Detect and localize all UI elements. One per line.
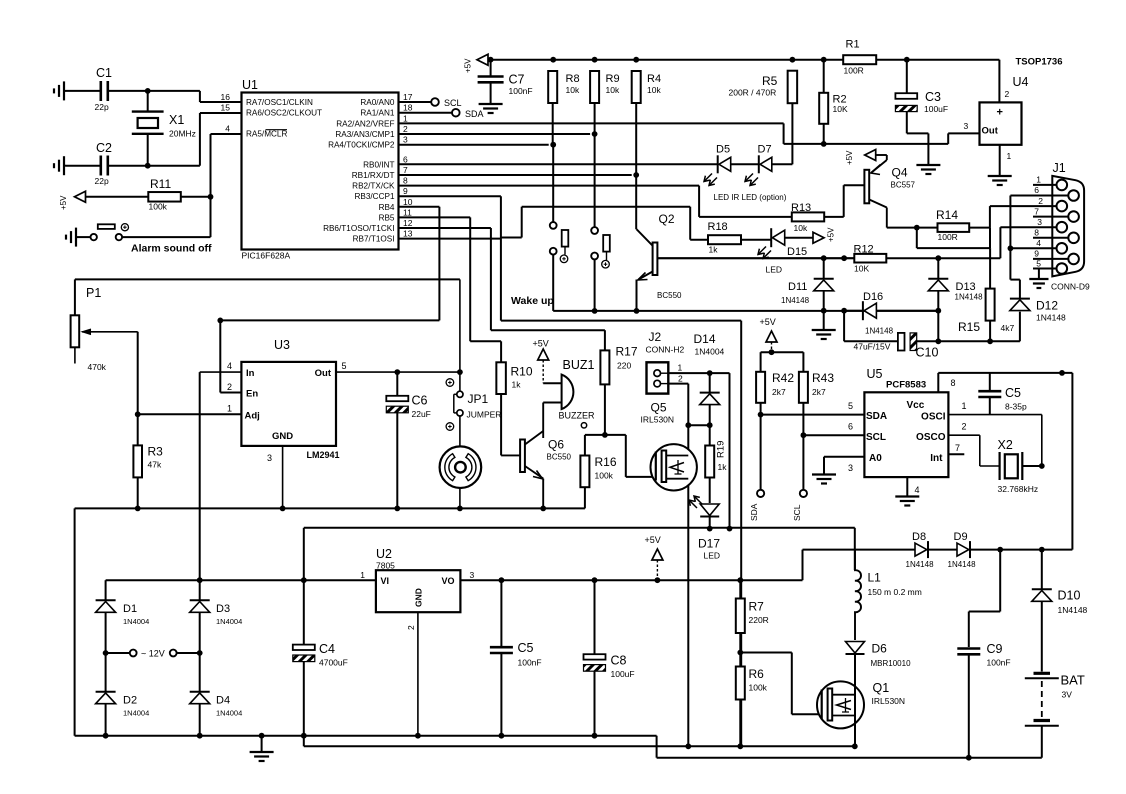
- capacitor C1: [66, 90, 101, 92]
- svg-text:LED IR LED (option): LED IR LED (option): [714, 193, 787, 202]
- svg-text:RB4: RB4: [379, 203, 395, 212]
- svg-text:+5V: +5V: [533, 339, 549, 349]
- svg-text:100nF: 100nF: [509, 86, 533, 96]
- svg-text:BC550: BC550: [547, 453, 572, 462]
- diode D3: [199, 580, 201, 600]
- svg-text:R9: R9: [606, 73, 620, 85]
- transistor Q6 BC550: [501, 454, 520, 456]
- svg-text:5: 5: [848, 401, 853, 411]
- svg-text:17: 17: [403, 92, 413, 102]
- svg-text:RB0/INT: RB0/INT: [363, 160, 394, 169]
- resistor R14: [917, 227, 938, 229]
- wire: [772, 163, 792, 165]
- svg-text:8-35p: 8-35p: [1005, 402, 1027, 412]
- svg-text:D16: D16: [863, 291, 883, 303]
- svg-text:SDA: SDA: [465, 109, 484, 119]
- svg-text:D2: D2: [123, 695, 137, 707]
- ground: [916, 164, 940, 166]
- wire: [550, 142, 556, 148]
- pin 2: [998, 60, 1000, 103]
- svg-text:D11: D11: [788, 281, 807, 293]
- diode D9: [928, 549, 957, 551]
- wire Q4 collector node: [887, 227, 917, 229]
- wire: [208, 194, 214, 200]
- jumper JP1: [459, 279, 461, 390]
- pin 2: [668, 383, 688, 385]
- svg-text:7: 7: [403, 165, 408, 175]
- svg-text:6: 6: [403, 154, 408, 164]
- diode D6: [846, 642, 865, 654]
- diode D14: [709, 373, 711, 393]
- svg-text:D17: D17: [698, 537, 720, 551]
- wire: [729, 373, 731, 528]
- svg-text:GND: GND: [414, 588, 424, 607]
- resistor R1: [843, 55, 876, 64]
- svg-text:9: 9: [1034, 249, 1039, 259]
- wire GND pin3: [282, 446, 284, 509]
- diode D10: [1041, 550, 1043, 590]
- svg-text:OSCI: OSCI: [921, 412, 946, 423]
- capacitor C3: [906, 60, 908, 93]
- svg-text:+: +: [997, 107, 1003, 119]
- svg-text:8: 8: [403, 176, 408, 186]
- svg-text:U3: U3: [274, 338, 290, 352]
- ground: [823, 311, 825, 329]
- svg-text:SDA: SDA: [749, 503, 759, 521]
- resistor R6: [736, 667, 745, 700]
- transistor Q4 BC557: [864, 170, 869, 204]
- svg-text:100nF: 100nF: [987, 658, 1011, 668]
- svg-text:1N4004: 1N4004: [216, 617, 242, 626]
- svg-text:+5V: +5V: [645, 535, 661, 545]
- svg-text:D15: D15: [787, 246, 807, 258]
- wire A0 ground: [824, 456, 864, 458]
- svg-text:SCL: SCL: [866, 432, 886, 443]
- svg-text:D14: D14: [694, 332, 716, 346]
- svg-text:100R: 100R: [938, 232, 958, 242]
- svg-text:3: 3: [964, 121, 969, 131]
- svg-text:4k7: 4k7: [1001, 323, 1015, 333]
- wire base R13: [844, 184, 865, 186]
- wire: [633, 172, 639, 178]
- svg-text:Q2: Q2: [659, 212, 675, 226]
- svg-text:D13: D13: [956, 281, 976, 293]
- svg-text:RB7/T1OSI: RB7/T1OSI: [353, 235, 395, 244]
- diode D2: [105, 653, 107, 692]
- ground: [479, 103, 503, 105]
- svg-text:RB3/CCP1: RB3/CCP1: [354, 192, 394, 201]
- svg-text:BAT: BAT: [1061, 673, 1085, 688]
- svg-text:8: 8: [951, 378, 956, 388]
- svg-text:R11: R11: [150, 177, 171, 191]
- IC U3 LM2941: [241, 362, 336, 446]
- svg-text:R16: R16: [595, 455, 617, 469]
- svg-text:BUZ1: BUZ1: [563, 358, 595, 372]
- resistor R18: [690, 239, 708, 241]
- LED D15: [770, 228, 772, 247]
- pin 8: [1033, 237, 1069, 239]
- MOSFET Q1 IRL530N: [817, 681, 864, 728]
- switch wake-up 2: [594, 134, 596, 227]
- svg-text:BC557: BC557: [891, 181, 916, 190]
- transistor Q2 BC550: [653, 243, 658, 276]
- svg-text:SCL: SCL: [792, 504, 802, 521]
- IC U5 PCF8583: [864, 392, 948, 477]
- resistor R19: [705, 446, 714, 478]
- svg-text:2k7: 2k7: [772, 387, 786, 397]
- wire: [688, 424, 709, 426]
- svg-text:X2: X2: [998, 438, 1013, 452]
- resistor R11: [80, 196, 148, 198]
- wire switch common rail: [553, 310, 938, 312]
- wire RA2 to U4: [399, 122, 784, 124]
- svg-text:D12: D12: [1036, 299, 1058, 313]
- svg-text:D3: D3: [216, 603, 230, 615]
- svg-text:D7: D7: [758, 144, 772, 156]
- svg-text:+5V: +5V: [827, 227, 836, 242]
- wire Adj: [138, 413, 242, 415]
- IC U4 TSOP1736: [980, 102, 1022, 144]
- svg-text:3: 3: [403, 135, 408, 145]
- svg-text:+5V: +5V: [59, 195, 68, 210]
- wire: [990, 340, 1020, 342]
- svg-text:1N4148: 1N4148: [906, 560, 935, 569]
- ground: [895, 495, 919, 497]
- svg-text:X1: X1: [169, 113, 184, 127]
- capacitor C10: [843, 311, 845, 342]
- svg-text:L1: L1: [868, 571, 882, 585]
- svg-text:C8: C8: [611, 654, 627, 668]
- LED D17: [700, 504, 719, 516]
- svg-text:10k: 10k: [794, 223, 808, 233]
- svg-text:16: 16: [221, 92, 231, 102]
- resistor R17: [600, 350, 609, 384]
- svg-text:1N4004: 1N4004: [695, 347, 725, 357]
- svg-text:D6: D6: [872, 642, 888, 656]
- svg-text:Wake up: Wake up: [511, 295, 554, 307]
- svg-text:Adj: Adj: [245, 411, 260, 422]
- svg-text:C10: C10: [916, 346, 939, 360]
- ground: [988, 175, 1012, 177]
- svg-text:3V: 3V: [1062, 690, 1073, 700]
- svg-text:IRL530N: IRL530N: [872, 696, 906, 706]
- wire gate Q1: [740, 652, 792, 654]
- svg-text:Q1: Q1: [873, 681, 890, 695]
- svg-text:1N4004: 1N4004: [123, 709, 149, 718]
- wire R16/R17/Q5 node: [585, 434, 626, 436]
- svg-text:3: 3: [470, 570, 475, 580]
- diode D11: [823, 258, 825, 279]
- svg-text:150 m 0.2 mm: 150 m 0.2 mm: [868, 587, 922, 597]
- svg-text:+5V: +5V: [760, 317, 776, 327]
- resistor R4: [632, 71, 641, 103]
- svg-text:4: 4: [915, 485, 920, 495]
- node SDA: [399, 112, 452, 114]
- speaker: [459, 416, 461, 447]
- svg-text:1k: 1k: [718, 462, 728, 472]
- wire SCL line: [803, 434, 864, 436]
- +5V: [75, 191, 86, 202]
- svg-text:D4: D4: [216, 695, 230, 707]
- svg-text:22p: 22p: [95, 102, 109, 112]
- svg-text:Alarm sound off: Alarm sound off: [131, 243, 212, 255]
- svg-text:200R / 470R: 200R / 470R: [729, 88, 777, 98]
- svg-text:4: 4: [227, 361, 232, 371]
- svg-text:PIC16F628A: PIC16F628A: [242, 251, 291, 261]
- svg-text:10K: 10K: [854, 264, 869, 274]
- svg-text:1: 1: [227, 404, 232, 414]
- wire RB3/RB7 loop: [399, 195, 501, 197]
- svg-text:20MHz: 20MHz: [169, 129, 196, 139]
- svg-text:1: 1: [360, 570, 365, 580]
- svg-text:RA4/T0CKI/CMP2: RA4/T0CKI/CMP2: [328, 141, 395, 150]
- svg-text:R6: R6: [749, 667, 765, 681]
- svg-text:R15: R15: [958, 320, 980, 334]
- svg-text:1N4148: 1N4148: [955, 293, 984, 302]
- svg-text:TSOP1736: TSOP1736: [1016, 57, 1063, 68]
- svg-text:1N4148: 1N4148: [948, 560, 977, 569]
- svg-text:RB1/RX/DT: RB1/RX/DT: [352, 171, 395, 180]
- svg-text:GND: GND: [272, 431, 293, 442]
- svg-text:3: 3: [1037, 217, 1042, 227]
- svg-text:1N4148: 1N4148: [1036, 313, 1066, 323]
- svg-text:Vcc: Vcc: [907, 400, 925, 411]
- svg-text:LED: LED: [766, 265, 783, 275]
- svg-text:R3: R3: [148, 445, 164, 459]
- svg-text:RA1/AN1: RA1/AN1: [360, 109, 395, 118]
- svg-text:D10: D10: [1058, 589, 1081, 603]
- wire: [148, 90, 200, 92]
- svg-text:6: 6: [848, 422, 853, 432]
- svg-text:1N4148: 1N4148: [1058, 605, 1088, 615]
- svg-text:U5: U5: [867, 367, 883, 381]
- svg-text:100uF: 100uF: [611, 669, 635, 679]
- diode D1: [105, 580, 107, 600]
- svg-text:47uF/15V: 47uF/15V: [854, 342, 891, 352]
- svg-text:RA2/AN2/VREF: RA2/AN2/VREF: [336, 119, 394, 128]
- svg-text:+5V: +5V: [845, 150, 854, 165]
- svg-text:J1: J1: [1053, 161, 1066, 175]
- svg-text:2: 2: [406, 625, 416, 630]
- svg-text:MBR10010: MBR10010: [871, 659, 912, 668]
- node SCL: [802, 435, 804, 490]
- svg-text:J2: J2: [649, 330, 662, 344]
- svg-text:2: 2: [227, 382, 232, 392]
- svg-text:BC550: BC550: [657, 291, 682, 300]
- svg-text:10: 10: [403, 197, 413, 207]
- ground: [812, 473, 836, 475]
- svg-text:13: 13: [403, 229, 413, 239]
- svg-text:100k: 100k: [149, 202, 168, 212]
- svg-text:15: 15: [221, 103, 231, 113]
- capacitor C8: [594, 580, 596, 654]
- svg-text:Q4: Q4: [892, 166, 908, 180]
- svg-text:Out: Out: [982, 126, 999, 137]
- capacitor C2: [66, 165, 101, 167]
- wire rail: [75, 507, 585, 509]
- svg-text:R4: R4: [647, 73, 661, 85]
- svg-text:1N4148: 1N4148: [781, 296, 810, 305]
- ground: [63, 81, 65, 100]
- svg-text:470k: 470k: [88, 362, 107, 372]
- svg-text:C9: C9: [987, 642, 1003, 656]
- svg-text:U4: U4: [1013, 75, 1029, 89]
- svg-text:CONN-D9: CONN-D9: [1051, 282, 1090, 292]
- svg-text:C5: C5: [1005, 386, 1021, 400]
- svg-text:7805: 7805: [376, 561, 395, 571]
- IC U1 PIC16F628A: [242, 93, 399, 250]
- svg-text:RB2/TX/CK: RB2/TX/CK: [352, 182, 395, 191]
- svg-text:2k7: 2k7: [812, 387, 826, 397]
- ground: [1038, 269, 1040, 279]
- svg-text:RA3/AN3/CMP1: RA3/AN3/CMP1: [335, 130, 395, 139]
- svg-text:1k: 1k: [709, 245, 719, 255]
- svg-text:R14: R14: [936, 208, 958, 222]
- svg-text:220R: 220R: [749, 615, 769, 625]
- svg-text:C5: C5: [518, 641, 534, 655]
- wire: [761, 351, 804, 353]
- wire VI line: [106, 579, 376, 581]
- svg-text:1: 1: [1007, 151, 1012, 161]
- wire +12V line: [304, 527, 855, 529]
- svg-text:D5: D5: [716, 144, 730, 156]
- svg-text:VO: VO: [441, 576, 454, 586]
- svg-text:5: 5: [1036, 259, 1041, 269]
- svg-text:18: 18: [403, 103, 413, 113]
- connector J1 CONN-D9: [1052, 176, 1084, 277]
- resistor R5: [788, 71, 798, 104]
- svg-text:7: 7: [955, 443, 960, 453]
- svg-text:R5: R5: [762, 74, 778, 88]
- svg-text:1N4004: 1N4004: [123, 617, 149, 626]
- LED D7: [731, 163, 759, 165]
- svg-text:+5V: +5V: [464, 58, 473, 73]
- resistor R42: [756, 372, 765, 403]
- svg-text:2: 2: [678, 374, 683, 384]
- IC U2 7805: [376, 570, 461, 612]
- svg-text:RA5/MCLR: RA5/MCLR: [246, 130, 287, 139]
- svg-text:1: 1: [962, 401, 967, 411]
- svg-text:2: 2: [403, 124, 408, 134]
- wire In: [200, 371, 242, 373]
- svg-text:R42: R42: [772, 371, 794, 385]
- wire RB6 to R17: [399, 227, 491, 229]
- resistor R8: [548, 71, 557, 103]
- inductor L1: [855, 550, 861, 640]
- capacitor C7: [490, 60, 492, 77]
- wire RB5 to R10: [399, 216, 471, 218]
- wire Vcc line: [937, 373, 939, 392]
- svg-text:4: 4: [225, 124, 230, 134]
- pin 1: [668, 372, 729, 374]
- svg-text:5: 5: [342, 361, 347, 371]
- wire rail A to C: [656, 736, 658, 758]
- svg-text:R19: R19: [716, 441, 727, 458]
- svg-text:100R: 100R: [844, 66, 864, 76]
- svg-text:BUZZER: BUZZER: [559, 411, 596, 421]
- svg-text:JP1: JP1: [468, 392, 489, 406]
- svg-text:IRL530N: IRL530N: [641, 415, 675, 425]
- svg-text:LM2941: LM2941: [307, 450, 340, 460]
- svg-text:D8: D8: [912, 531, 926, 543]
- +5V rail: [477, 54, 488, 65]
- svg-text:RB5: RB5: [379, 213, 395, 222]
- resistor R9: [590, 71, 599, 103]
- resistor R12: [854, 254, 886, 263]
- svg-text:2: 2: [1038, 196, 1043, 206]
- svg-text:220: 220: [617, 361, 631, 371]
- svg-text:U1: U1: [242, 78, 258, 92]
- wire +5V rail: [460, 579, 802, 581]
- svg-text:Int: Int: [930, 453, 943, 464]
- node ~12V: [106, 652, 130, 654]
- svg-text:D1: D1: [123, 603, 137, 615]
- +5V: [785, 237, 813, 239]
- svg-text:10k: 10k: [566, 85, 580, 95]
- resistor R10: [496, 362, 506, 394]
- wire P1 top: [75, 278, 460, 280]
- svg-text:10K: 10K: [833, 104, 848, 114]
- svg-text:R7: R7: [749, 600, 765, 614]
- capacitor C4: [303, 580, 305, 644]
- svg-text:8: 8: [1034, 228, 1039, 238]
- svg-text:C4: C4: [319, 642, 335, 656]
- svg-text:12: 12: [403, 218, 413, 228]
- MOSFET Q5 IRL530N: [687, 384, 689, 426]
- pin 7: [1033, 216, 1069, 218]
- svg-text:JUMPER: JUMPER: [467, 410, 502, 420]
- svg-text:A0: A0: [869, 453, 882, 464]
- svg-text:1: 1: [1036, 175, 1041, 185]
- svg-text:11: 11: [403, 207, 412, 217]
- resistor R16: [580, 456, 589, 488]
- svg-text:1N4148: 1N4148: [865, 327, 894, 336]
- wire R12 line: [657, 257, 854, 259]
- pin 1: [999, 145, 1001, 175]
- svg-text:1: 1: [678, 363, 683, 373]
- capacitor C5: [989, 373, 991, 391]
- svg-text:2: 2: [962, 422, 967, 432]
- svg-text:VI: VI: [381, 576, 390, 586]
- svg-text:PCF8583: PCF8583: [886, 380, 926, 391]
- svg-text:4700uF: 4700uF: [319, 658, 348, 668]
- svg-text:U2: U2: [376, 547, 392, 561]
- wire En: [220, 392, 241, 394]
- svg-text:3: 3: [267, 453, 272, 463]
- ground: [261, 736, 263, 751]
- pin 1: [1033, 184, 1057, 186]
- svg-text:7: 7: [1034, 207, 1039, 217]
- svg-text:1N4004: 1N4004: [216, 709, 242, 718]
- svg-text:OSCO: OSCO: [916, 432, 946, 443]
- svg-text:1: 1: [403, 113, 408, 123]
- wire J1 pin4 node: [1008, 245, 1014, 251]
- wire Out: [336, 371, 460, 373]
- svg-text:RA6/OSC2/CLKOUT: RA6/OSC2/CLKOUT: [246, 109, 322, 118]
- svg-text:100k: 100k: [595, 471, 614, 481]
- wire: [970, 549, 1072, 551]
- pin 2: [417, 612, 419, 736]
- wire D16 line: [841, 308, 847, 314]
- wire RB4: [399, 206, 440, 208]
- svg-text:47k: 47k: [148, 460, 162, 470]
- svg-text:C7: C7: [509, 73, 525, 87]
- wire ground rail B: [303, 736, 305, 747]
- svg-text:R10: R10: [511, 365, 533, 379]
- svg-text:C6: C6: [412, 394, 428, 408]
- svg-text:SCL: SCL: [444, 98, 462, 108]
- svg-text:Q6: Q6: [548, 438, 564, 452]
